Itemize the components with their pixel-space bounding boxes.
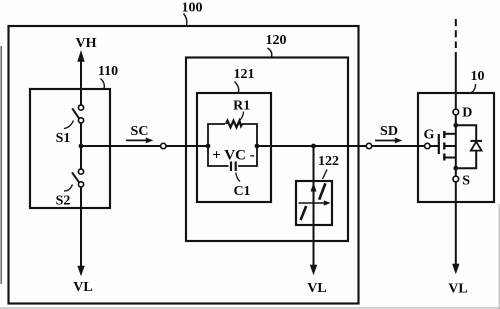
SC arrow (126, 139, 147, 141)
switch S1 contact circles (78, 105, 83, 110)
body diode cathode bar (470, 140, 482, 142)
svg-text:VH: VH (76, 36, 97, 51)
wire below S2 to box edge and VL (80, 187, 82, 266)
svg-text:10: 10 (471, 69, 485, 84)
transistor Q1 body lead (444, 145, 456, 147)
capacitor C1 plates (230, 162, 232, 172)
node D open circle (453, 109, 459, 115)
block 10 outline (418, 93, 494, 202)
junction dot drain/diode (453, 123, 458, 128)
svg-text:G: G (424, 128, 435, 143)
junction dot source/diode (453, 166, 458, 171)
label 100 leader (184, 14, 187, 26)
block 120 outline (186, 58, 348, 242)
block 122 outline (296, 181, 332, 225)
graph ramp slash lower (301, 206, 307, 220)
node S open circle (453, 176, 459, 182)
label S1 leader (64, 121, 74, 129)
VL arrowhead middle (310, 265, 317, 276)
dashed drain line top (455, 19, 457, 48)
svg-text:SD: SD (380, 124, 398, 139)
VL arrowhead left (77, 266, 84, 277)
graph vertical axis arrowhead (311, 183, 317, 192)
svg-text:121: 121 (234, 67, 255, 82)
wire below block 10 to VL (455, 182, 457, 264)
main wire segment middle (257, 145, 439, 147)
body diode triangle (471, 142, 482, 151)
main wire segment left (81, 145, 208, 147)
label R1 leader (239, 112, 244, 122)
block 100 outline (9, 26, 359, 304)
label 122 leader (323, 170, 328, 180)
SD arrow (375, 140, 396, 142)
solid drain line into block (455, 52, 457, 109)
svg-text:S: S (462, 174, 470, 189)
graph horizontal axis (299, 202, 326, 204)
svg-text:D: D (462, 106, 472, 121)
label 110 leader (101, 79, 105, 89)
svg-text:C1: C1 (233, 184, 250, 199)
RC loop rectangle (left/right/bottom partial + top partial) (208, 124, 257, 166)
VL arrowhead right (452, 264, 459, 275)
switch S2 contact circles (78, 169, 83, 174)
transistor Q1 channel segments (443, 131, 445, 138)
block 110 outline (30, 89, 110, 208)
transistor Q1 gate bar (438, 134, 440, 154)
VH arrow wire (80, 59, 82, 89)
internal drain-source vertical wire (455, 115, 457, 176)
transistor Q1 drain lead (444, 133, 456, 135)
svg-text:110: 110 (98, 64, 118, 79)
junction dot RC right (255, 144, 260, 149)
node SC open circle (161, 143, 166, 148)
transistor Q1 source lead (444, 157, 456, 159)
svg-text:VL: VL (73, 280, 92, 295)
junction dot at 122 branch (311, 144, 316, 149)
body diode branch wire (456, 125, 476, 168)
VH arrowhead (77, 50, 84, 62)
resistor R1 zigzag (226, 121, 242, 128)
label 120 leader (268, 48, 272, 57)
label C1 leader (236, 173, 240, 182)
scan artifact bottom edge line (0, 307, 500, 309)
scan artifact right edge line (498, 204, 500, 309)
label 121 leader (235, 82, 239, 93)
svg-text:122: 122 (318, 154, 339, 169)
node SD open circle (366, 143, 371, 148)
switch S2 blade (72, 172, 79, 182)
switch S1 blade (72, 108, 79, 118)
junction dot RC left (206, 144, 211, 149)
scan artifact left edge line (0, 46, 2, 284)
svg-text:VL: VL (448, 282, 467, 297)
svg-text:S2: S2 (56, 194, 71, 209)
svg-text:R1: R1 (233, 99, 250, 114)
wire down to block 122 and VL (313, 146, 315, 265)
svg-text:S1: S1 (56, 131, 71, 146)
svg-text:SC: SC (131, 124, 149, 139)
wire between S1 and junction (80, 123, 82, 169)
wire switch branch upper (80, 89, 82, 105)
svg-text:+ VC -: + VC - (212, 148, 254, 164)
transistor Q1 gate wire (418, 145, 438, 147)
junction dot at switch branch (79, 144, 84, 149)
svg-text:100: 100 (182, 1, 203, 16)
svg-text:VL: VL (307, 281, 326, 296)
node G open circle (425, 143, 430, 148)
label S2 leader (64, 185, 73, 192)
graph ramp slash upper (319, 183, 325, 199)
block 121 outline (197, 93, 271, 202)
label 10 leader (472, 84, 476, 93)
svg-text:120: 120 (266, 33, 287, 48)
